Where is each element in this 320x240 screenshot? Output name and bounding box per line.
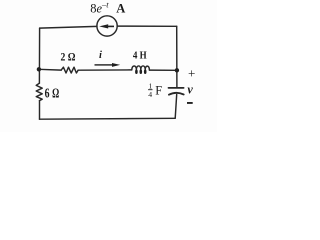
wire right vertical upper [176,26,178,87]
svg-text:6: 6 [45,86,50,101]
svg-text:+: + [188,66,195,81]
resistor R2 6 ohm zigzag [36,83,42,100]
node junction left [37,67,41,71]
wire middle center [78,69,132,71]
current source U1 circle [97,16,117,36]
wire left vertical upper [38,28,40,83]
svg-text:8e–tA: 8e–tA [90,0,125,16]
node junction right [175,68,179,72]
current source arrow (points left) [99,24,114,28]
svg-text:F: F [155,84,162,98]
svg-text:4: 4 [148,90,152,99]
svg-text:i: i [99,50,102,61]
svg-text:v: v [187,83,193,97]
wire left vertical lower [39,101,41,120]
inductor L1 4H coil bumps [132,66,150,70]
wire bottom [40,117,176,120]
wire middle right [149,69,177,71]
capacitor C1 bottom curved plate [169,93,184,95]
current arrow i (points right) [95,63,121,67]
svg-text:2 Ω: 2 Ω [61,49,76,63]
resistor R1 2 ohm zigzag [61,67,78,73]
label 1/4 F fraction [148,82,162,99]
wire right vertical lower [175,94,177,118]
svg-text:Ω: Ω [52,86,59,101]
wire top-left segment [40,26,97,28]
label minus sign [187,102,193,104]
wire middle left [39,68,61,71]
capacitor C1 top plate [169,87,184,89]
wire top-right segment [117,25,177,27]
inductor L1 lower loops [135,69,146,74]
svg-text:4 H: 4 H [133,51,147,62]
